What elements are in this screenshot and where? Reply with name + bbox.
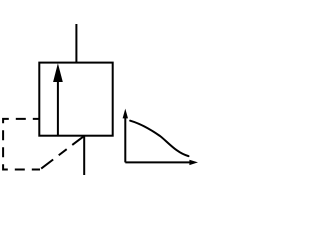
pressure regulator schematic with characteristic curve [0,0,200,200]
characteristic curve [130,121,188,156]
flow arrow shaft [57,81,59,136]
bottom output wire [83,136,85,175]
flow arrow head [53,63,63,82]
pilot line (dashed): box left, down, along bottom [3,119,40,170]
top port wire [75,24,77,63]
valve body box [39,63,112,136]
graph y-axis [124,117,126,163]
graph x-axis arrow head [189,160,198,165]
graph x-axis [125,161,190,163]
graph y-axis arrow head [123,109,128,119]
pilot line diagonal to output junction [40,136,84,170]
